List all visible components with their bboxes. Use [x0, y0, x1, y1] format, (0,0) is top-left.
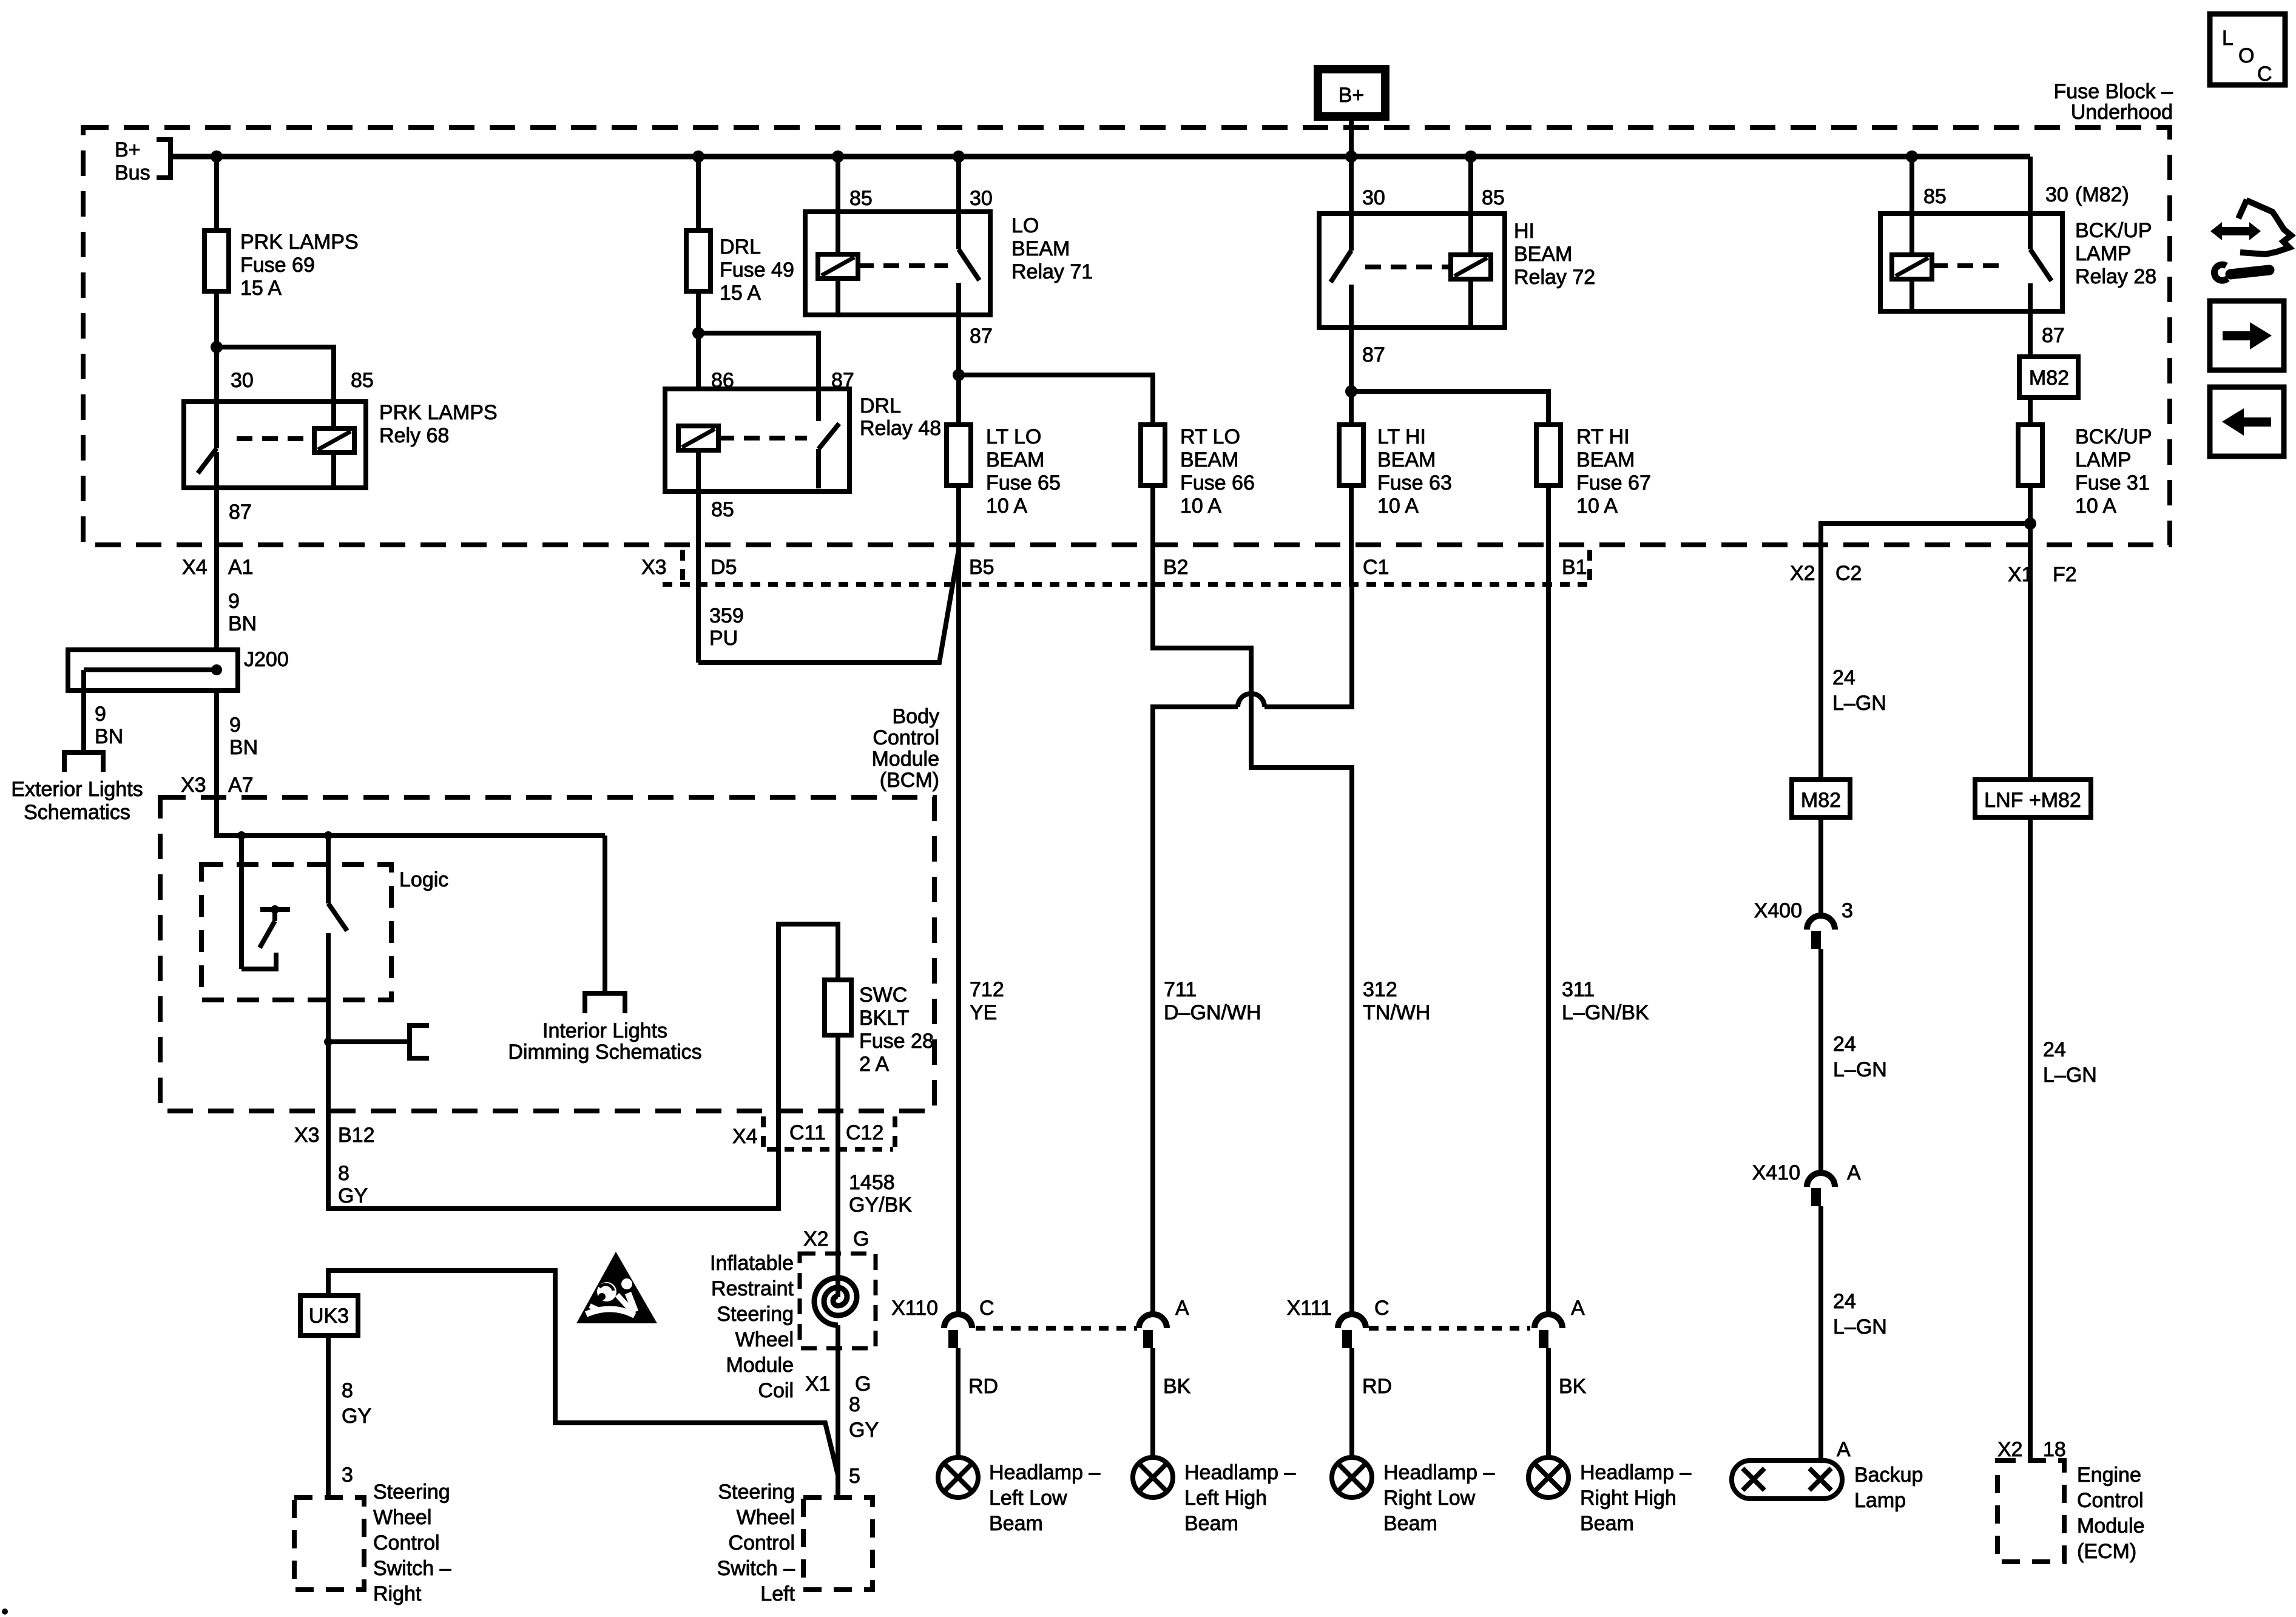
wire branch to SWC terminal: [328, 1039, 410, 1044]
wire bus to relay 71 pin 30: [956, 157, 961, 212]
svg-text:L–GN: L–GN: [1833, 1058, 1887, 1081]
svg-text:711: 711: [1164, 978, 1197, 1001]
svg-text:X400: X400: [1754, 899, 1802, 922]
svg-text:F2: F2: [2053, 563, 2077, 586]
connector X110 dashed link: [976, 1326, 1137, 1331]
steering wheel control switch right dashed box: [294, 1480, 451, 1605]
forward arrow icon box: [2210, 301, 2284, 370]
junction bus / relay 71 pin 85: [832, 150, 844, 163]
junction bus / relay 71 pin 30: [953, 150, 965, 163]
wire label 8 GY at B12: [338, 1162, 368, 1207]
svg-text:10 A: 10 A: [986, 495, 1027, 518]
svg-text:X4: X4: [182, 556, 208, 579]
svg-text:9: 9: [95, 703, 106, 726]
svg-text:85: 85: [1923, 185, 1947, 208]
svg-text:Headlamp –: Headlamp –: [1580, 1461, 1691, 1484]
svg-text:C: C: [1374, 1297, 1389, 1320]
svg-text:Wheel: Wheel: [737, 1506, 795, 1529]
svg-text:Wheel: Wheel: [373, 1506, 431, 1529]
svg-text:LNF +M82: LNF +M82: [1984, 789, 2081, 812]
svg-text:BEAM: BEAM: [986, 448, 1044, 471]
connector X4 C11 C12 bracket: [732, 1116, 895, 1149]
svg-text:Rely 68: Rely 68: [379, 424, 449, 447]
wire relay 71 pin 87 down: [956, 315, 961, 425]
connector X1-F2 labels: [2008, 563, 2077, 586]
svg-text:Right High: Right High: [1580, 1487, 1676, 1510]
svg-text:TN/WH: TN/WH: [1363, 1001, 1430, 1024]
svg-text:GY: GY: [342, 1405, 371, 1428]
fuse 65 LT LO BEAM 10A: [947, 425, 1061, 518]
svg-text:311: 311: [1562, 978, 1595, 1001]
svg-text:Beam: Beam: [1184, 1512, 1238, 1535]
logic dashed box: [201, 865, 448, 1000]
svg-text:3: 3: [342, 1463, 353, 1487]
svg-text:DRL: DRL: [720, 235, 761, 258]
svg-text:BN: BN: [228, 612, 257, 635]
junction logic switch 2 / SWC terminal branch: [324, 1038, 333, 1046]
svg-text:Wheel: Wheel: [735, 1328, 794, 1351]
svg-text:X410: X410: [1752, 1161, 1800, 1184]
wire branch to relay 48 pin 87: [698, 333, 819, 421]
svg-text:A: A: [1175, 1297, 1189, 1320]
connector D5 label: [711, 556, 737, 579]
svg-text:Right: Right: [373, 1582, 422, 1605]
relay 48 switch: [819, 424, 839, 488]
B+ battery terminal box: [1318, 69, 1385, 116]
svg-text:X3: X3: [294, 1124, 320, 1147]
svg-text:30: 30: [1362, 186, 1385, 209]
svg-text:Control: Control: [373, 1531, 440, 1555]
LNF +M82 engine code box: [1975, 780, 2091, 817]
svg-text:85: 85: [1482, 186, 1505, 209]
relay 68 name label: [379, 401, 498, 447]
svg-text:GY/BK: GY/BK: [849, 1193, 912, 1217]
wire BK to right high lamp: [1548, 1348, 1587, 1457]
svg-text:9: 9: [229, 714, 241, 737]
svg-text:Backup: Backup: [1854, 1463, 1923, 1487]
svg-text:359: 359: [709, 604, 744, 627]
wire bus to fuse 69: [214, 157, 219, 231]
relay 72 pin labels 30 85: [1362, 186, 1505, 209]
connector X1-G labels: [805, 1372, 871, 1396]
relay 28 internal dashed link: [1932, 263, 2008, 268]
wire RD to right low lamp: [1352, 1348, 1392, 1457]
back arrow icon box: [2210, 387, 2284, 456]
svg-text:Relay 28: Relay 28: [2075, 265, 2156, 288]
wire bus end to relay 28 pin 30: [2028, 157, 2033, 214]
wire fuse 67 to connector B1: [1546, 485, 1551, 584]
svg-text:A: A: [1847, 1161, 1861, 1184]
svg-text:Restraint: Restraint: [711, 1277, 794, 1300]
svg-text:Fuse 63: Fuse 63: [1377, 471, 1452, 495]
connector C1 label: [1363, 556, 1389, 579]
svg-text:Left High: Left High: [1184, 1487, 1267, 1510]
engine control module ECM dashed box: [1997, 1460, 2145, 1563]
M82 engine code box: [2019, 357, 2078, 397]
svg-text:A7: A7: [228, 774, 254, 797]
svg-text:Switch –: Switch –: [373, 1557, 451, 1580]
svg-text:Fuse 67: Fuse 67: [1576, 471, 1651, 495]
relay 48 internal dashed link: [718, 436, 807, 441]
logic switch 1: [241, 836, 290, 969]
wire bus to relay 72 pin 85: [1468, 157, 1473, 214]
junction bus / relay 72 pin 85: [1465, 150, 1477, 163]
wire X410 to backup lamp 24 L-GN: [1821, 1206, 1887, 1460]
relay 68 internal dashed link: [237, 436, 314, 441]
svg-text:X4: X4: [732, 1125, 758, 1148]
relay 72 internal dashed link: [1365, 265, 1451, 269]
svg-text:BK: BK: [1163, 1375, 1191, 1398]
svg-text:A: A: [1571, 1297, 1585, 1320]
svg-text:24: 24: [1832, 666, 1855, 689]
svg-text:85: 85: [711, 498, 734, 521]
svg-text:312: 312: [1363, 978, 1397, 1001]
svg-text:L–GN/BK: L–GN/BK: [1562, 1001, 1649, 1024]
svg-text:Exterior Lights: Exterior Lights: [11, 778, 143, 801]
svg-text:M82: M82: [1801, 789, 1841, 812]
svg-text:Steering: Steering: [373, 1480, 450, 1504]
svg-text:10 A: 10 A: [1377, 495, 1419, 518]
relay 48 coil: [678, 426, 718, 491]
relay 48 pin labels 86 87: [711, 369, 854, 392]
svg-text:Fuse 49: Fuse 49: [720, 258, 794, 282]
junction bus / fuse 69: [211, 150, 223, 163]
svg-text:(ECM): (ECM): [2077, 1540, 2136, 1563]
svg-text:Control: Control: [728, 1531, 795, 1555]
svg-text:HI: HI: [1514, 220, 1535, 243]
wire fuse 49 to relay 48 pin 86: [696, 291, 701, 389]
svg-text:Control: Control: [873, 726, 939, 749]
fuse 66 RT LO BEAM 10A: [1141, 425, 1255, 518]
svg-text:BEAM: BEAM: [1514, 243, 1572, 266]
relay 71 LO BEAM box: [805, 212, 990, 315]
svg-text:Left: Left: [760, 1582, 795, 1605]
svg-text:24: 24: [1833, 1033, 1856, 1056]
svg-text:87: 87: [2042, 324, 2065, 347]
relay 71 internal dashed link: [858, 263, 948, 268]
wire relay 28 pin 87 to M82 box: [2028, 311, 2033, 357]
wire BK to left high lamp: [1153, 1348, 1191, 1457]
svg-text:B2: B2: [1163, 556, 1189, 579]
svg-text:712: 712: [970, 978, 1004, 1001]
svg-text:Interior Lights: Interior Lights: [542, 1019, 667, 1042]
svg-text:X2: X2: [1997, 1438, 2023, 1461]
svg-text:UK3: UK3: [309, 1305, 349, 1328]
fuse 49 DRL 15A: [686, 231, 794, 305]
BCM name label: [871, 705, 939, 792]
connector X3 bracket under fuse block: [641, 550, 1590, 584]
wire bus to relay 71 pin 85: [836, 157, 840, 212]
svg-text:8: 8: [342, 1379, 353, 1402]
svg-text:BN: BN: [229, 736, 258, 759]
svg-text:B+: B+: [1339, 84, 1365, 107]
wire branch to relay 68 pin 85: [217, 347, 334, 402]
wire label 312 TN/WH: [1363, 978, 1430, 1024]
terminal SWC bracket: [410, 1025, 429, 1058]
svg-text:Fuse 31: Fuse 31: [2075, 471, 2150, 495]
svg-text:85: 85: [351, 369, 374, 392]
relay 28 pin labels 85 30 (M82): [1923, 183, 2129, 208]
junction BCM node / logic switch 1: [237, 831, 246, 840]
wire fuse 63 to connector C1: [1349, 485, 1354, 584]
svg-text:C12: C12: [846, 1121, 883, 1144]
wire bus to fuse 49: [696, 157, 701, 231]
backup lamp: [1732, 1460, 1923, 1512]
svg-text:GY: GY: [849, 1419, 879, 1442]
wire fuse 66 to connector B2: [1150, 485, 1155, 584]
svg-text:Relay 72: Relay 72: [1514, 266, 1595, 289]
wire bus to relay 28 pin 85: [1909, 157, 1914, 214]
wire fuse 31 to connector X1-F2: [2028, 485, 2033, 780]
wire fuse 28 to C12: [836, 1035, 840, 1111]
svg-text:Beam: Beam: [989, 1512, 1043, 1535]
BCM internal arch C11 to fuse 28: [778, 924, 838, 1111]
svg-text:2 A: 2 A: [859, 1053, 889, 1076]
svg-text:X3: X3: [641, 556, 667, 579]
svg-text:C11: C11: [789, 1121, 826, 1144]
relay 28 coil: [1892, 214, 1932, 311]
relay 71 name label: [1011, 214, 1093, 283]
svg-text:J200: J200: [244, 648, 289, 671]
relay 28 BCK/UP LAMP box: [1880, 214, 2062, 311]
svg-text:Underhood: Underhood: [2071, 101, 2173, 124]
svg-text:Left Low: Left Low: [989, 1487, 1067, 1510]
relay 71 pin 87 label: [970, 325, 993, 348]
wire BCM node down to interior lights terminal: [603, 836, 607, 993]
svg-text:BCK/UP: BCK/UP: [2075, 219, 2152, 242]
relay 72 coil: [1451, 214, 1491, 328]
svg-text:BEAM: BEAM: [1377, 448, 1436, 471]
relay 72 name label: [1514, 220, 1595, 289]
svg-text:Fuse Block –: Fuse Block –: [2053, 80, 2173, 103]
svg-text:5: 5: [849, 1465, 860, 1488]
wire branch to fuse 66: [959, 375, 1153, 425]
wire B12 8 GY loop to C11: [328, 1111, 778, 1209]
headlamp right low beam: [1332, 1457, 1494, 1535]
svg-text:Relay 71: Relay 71: [1011, 260, 1093, 283]
svg-text:Headlamp –: Headlamp –: [1184, 1461, 1295, 1484]
fuse 31 BCK/UP LAMP 10A: [2018, 425, 2152, 518]
splice J200: [68, 648, 289, 690]
svg-text:B+: B+: [115, 138, 141, 161]
svg-text:B12: B12: [338, 1124, 375, 1147]
svg-text:(BCM): (BCM): [880, 769, 939, 792]
connector X2-C2 labels: [1790, 562, 1862, 585]
svg-text:Steering: Steering: [717, 1303, 794, 1326]
svg-text:C: C: [979, 1297, 994, 1320]
svg-text:Coil: Coil: [758, 1379, 794, 1402]
svg-text:87: 87: [229, 501, 252, 524]
relay 68 coil: [314, 402, 354, 488]
connector X110 left low pin C: [891, 1297, 994, 1348]
svg-text:Module: Module: [871, 748, 939, 771]
wire 311 L-GN/BK right high beam: [1548, 584, 1649, 1315]
body control module BCM dashed box: [160, 797, 934, 1111]
wire fuse 69 to relay 68 pin 30: [214, 291, 219, 402]
connector X2-18 labels at ECM: [1997, 1438, 2066, 1461]
svg-text:10 A: 10 A: [1180, 495, 1221, 518]
svg-text:C2: C2: [1835, 562, 1862, 585]
svg-text:PU: PU: [709, 627, 738, 650]
svg-text:Steering: Steering: [718, 1480, 795, 1504]
svg-text:Relay 48: Relay 48: [860, 417, 941, 440]
fuse block - underhood dashed box: [83, 127, 2170, 545]
wire C1 crossover to left high beam: [1153, 584, 1352, 1315]
svg-text:87: 87: [970, 325, 993, 348]
relay 48 name label: [860, 394, 941, 440]
svg-text:30: 30: [231, 369, 254, 392]
connector B2 label: [1163, 556, 1189, 579]
junction fuse 31 output / backup lamp branch: [2024, 518, 2036, 530]
relay 71 coil: [818, 212, 858, 315]
junction fuse 49 / relay 48 pin 87 branch: [692, 327, 704, 339]
svg-text:LT HI: LT HI: [1377, 425, 1426, 448]
label fuse block underhood: [2053, 80, 2173, 124]
svg-text:D–GN/WH: D–GN/WH: [1164, 1001, 1261, 1024]
svg-text:Fuse 65: Fuse 65: [986, 471, 1061, 495]
svg-text:Fuse 28: Fuse 28: [859, 1030, 934, 1053]
connector X3-A7 labels: [181, 774, 254, 797]
svg-text:DRL: DRL: [860, 394, 901, 417]
B+ bus bar wire: [171, 154, 2030, 160]
svg-text:Fuse 66: Fuse 66: [1180, 471, 1255, 495]
relay 72 switch: [1331, 214, 1351, 328]
svg-text:X2: X2: [803, 1227, 829, 1251]
svg-text:LT LO: LT LO: [986, 425, 1041, 448]
wire UK3 to steering switch right 8 GY: [328, 1335, 371, 1497]
svg-text:Beam: Beam: [1383, 1512, 1437, 1535]
wire fuse 65 to connector B5: [956, 485, 961, 584]
B+ bus label and bracket: [115, 138, 171, 184]
wire branch to fuse 67: [1351, 391, 1548, 425]
relay 28 name label: [2075, 219, 2156, 288]
fuse 63 LT HI BEAM 10A: [1339, 425, 1452, 518]
svg-text:X2: X2: [1790, 562, 1815, 585]
relay 68 pin labels 30 85: [231, 369, 374, 392]
wire J200 to connector X3-A7 9 BN: [217, 690, 258, 797]
svg-text:BEAM: BEAM: [1576, 448, 1635, 471]
svg-text:Lamp: Lamp: [1854, 1489, 1906, 1512]
wire LNF box to ECM 24 L-GN: [2030, 817, 2097, 1460]
fuse 67 RT HI BEAM 10A: [1536, 425, 1651, 518]
connector X2-G labels: [803, 1227, 869, 1251]
wire M82 box to fuse 31: [2028, 397, 2033, 425]
connector X3-B12 labels: [294, 1124, 375, 1147]
svg-text:PRK LAMPS: PRK LAMPS: [379, 401, 498, 424]
svg-text:G: G: [855, 1372, 871, 1396]
svg-text:RD: RD: [1362, 1375, 1392, 1398]
wire label 711 D-GN/WH: [1164, 978, 1261, 1024]
svg-text:Engine: Engine: [2077, 1463, 2141, 1487]
svg-text:Module: Module: [2077, 1514, 2145, 1538]
connector X110 left high pin A: [1139, 1297, 1189, 1348]
inflatable restraint steering wheel module coil: [710, 1252, 876, 1402]
connector X400 pin 3: [1754, 899, 1853, 949]
backup lamp pin A label: [1837, 1438, 1851, 1461]
svg-text:PRK LAMPS: PRK LAMPS: [240, 231, 359, 254]
wire label 9 BN below A1: [228, 590, 257, 635]
svg-text:LAMP: LAMP: [2075, 448, 2132, 471]
relay 71 switch: [959, 212, 979, 315]
svg-text:Beam: Beam: [1580, 1512, 1634, 1535]
svg-text:BK: BK: [1559, 1375, 1587, 1398]
wire 359 PU to B5 node: [698, 550, 959, 663]
svg-text:BKLT: BKLT: [859, 1007, 910, 1030]
LOC reference box icon: [2210, 14, 2285, 86]
svg-text:10 A: 10 A: [1576, 495, 1618, 518]
M82 splice box backup column: [1792, 780, 1850, 817]
svg-text:X111: X111: [1287, 1297, 1332, 1320]
svg-text:X1: X1: [2008, 563, 2033, 586]
relay 68 pin 87 label: [229, 501, 252, 524]
vehicle-data arrows and wrench icon: [2210, 200, 2291, 280]
svg-text:C1: C1: [1363, 556, 1389, 579]
svg-text:24: 24: [1833, 1290, 1856, 1313]
svg-text:10 A: 10 A: [2075, 495, 2116, 518]
svg-text:Bus: Bus: [115, 161, 150, 184]
svg-text:LO: LO: [1011, 214, 1039, 237]
svg-text:Switch –: Switch –: [717, 1557, 795, 1580]
svg-text:Right Low: Right Low: [1383, 1487, 1476, 1510]
wire C12 down 1458 GY/BK: [838, 1111, 912, 1256]
svg-text:A1: A1: [228, 556, 254, 579]
wire J200 branch 9 BN to exterior lights: [84, 670, 123, 752]
wire label 24 L-GN above M82: [1832, 666, 1886, 715]
svg-text:B5: B5: [969, 556, 994, 579]
wire relay 48 pin 85 to connector X3-D5: [696, 491, 701, 663]
svg-text:Schematics: Schematics: [24, 801, 130, 824]
svg-text:SWC: SWC: [859, 984, 907, 1007]
svg-text:Fuse 69: Fuse 69: [240, 254, 315, 277]
svg-text:8: 8: [338, 1162, 349, 1185]
connector X111 right high pin A: [1535, 1297, 1585, 1348]
terminal interior lights dimming: [508, 993, 701, 1064]
headlamp left high beam: [1133, 1457, 1295, 1535]
wire X400 to X410 24 L-GN: [1821, 949, 1887, 1173]
relay 68 PRK LAMPS box: [184, 402, 366, 488]
svg-text:D5: D5: [711, 556, 737, 579]
junction bus / relay 72 pin 30: [1345, 150, 1357, 163]
relay 48 DRL box: [665, 389, 849, 491]
svg-text:RD: RD: [968, 1375, 998, 1398]
svg-text:Dimming Schematics: Dimming Schematics: [508, 1041, 701, 1064]
svg-text:3: 3: [1842, 899, 1853, 922]
connector X111 right low pin C: [1287, 1297, 1389, 1348]
svg-text:RT HI: RT HI: [1576, 425, 1630, 448]
headlamp right high beam: [1528, 1457, 1691, 1535]
svg-text:BEAM: BEAM: [1011, 237, 1070, 260]
svg-text:(M82): (M82): [2075, 183, 2129, 206]
svg-text:Headlamp –: Headlamp –: [989, 1461, 1100, 1484]
wire relay 68 pin 87 to connector X4-A1: [214, 488, 219, 650]
wire below coil 8 GY to steering switch left: [838, 1357, 879, 1497]
svg-text:18: 18: [2043, 1438, 2066, 1461]
UK3 option box: [300, 1295, 358, 1335]
svg-text:Headlamp –: Headlamp –: [1383, 1461, 1494, 1484]
svg-text:Module: Module: [726, 1354, 794, 1377]
wire UK3 branch from coil wire: [328, 1271, 838, 1475]
relay 72 HI BEAM box: [1319, 214, 1505, 328]
svg-text:87: 87: [1362, 343, 1385, 366]
junction bus / relay 28 pin 85: [1906, 150, 1918, 163]
page period mark: [2, 1609, 8, 1615]
svg-text:1458: 1458: [849, 1171, 895, 1194]
fuse 28 SWC BKLT 2A: [825, 980, 934, 1076]
svg-text:C: C: [2257, 62, 2272, 86]
relay 48 pin 85 label: [711, 498, 734, 521]
junction relay 71 output branch: [953, 369, 965, 381]
svg-text:B1: B1: [1562, 556, 1587, 579]
